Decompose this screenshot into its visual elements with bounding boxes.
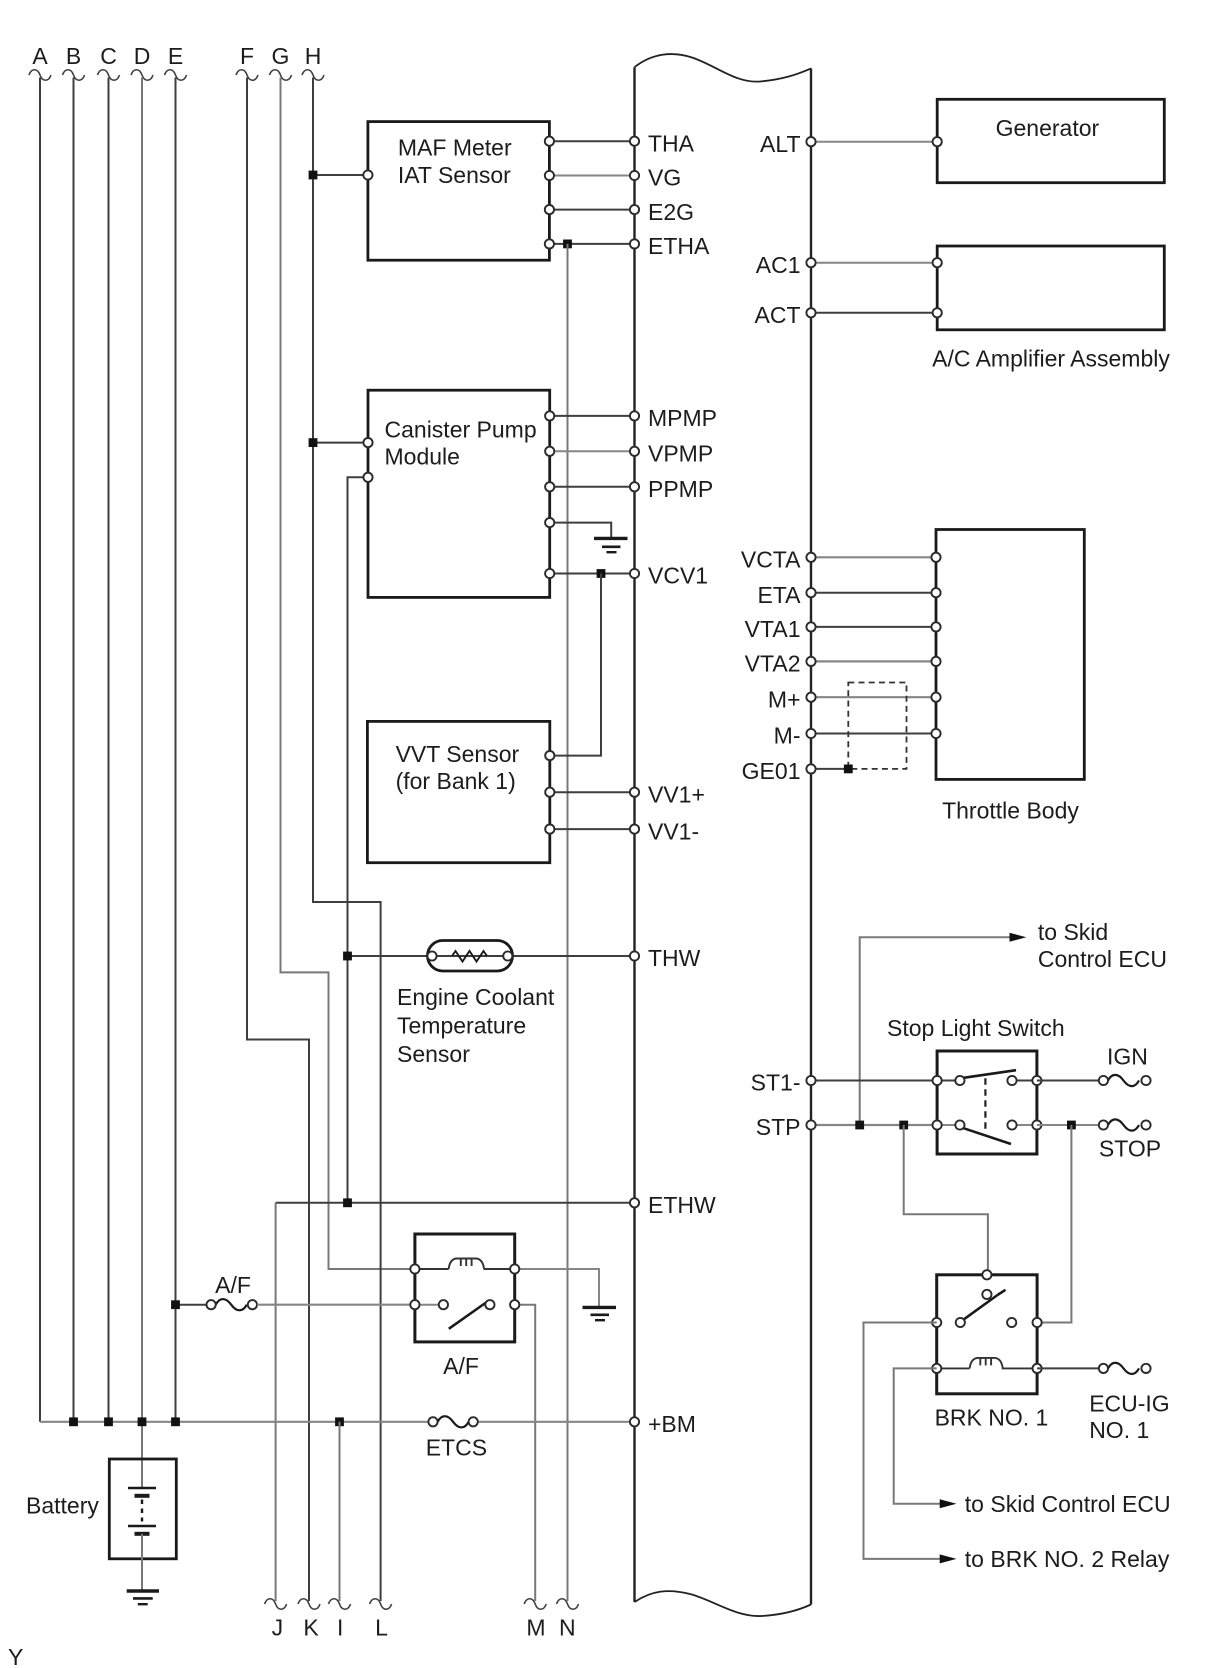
wire VV1+	[550, 791, 635, 793]
junction H-canister	[309, 438, 318, 447]
node C	[98, 43, 120, 80]
svg-text:H: H	[305, 43, 322, 69]
wire BRK coil left to skid control ECU arrow	[894, 1368, 941, 1503]
Stop Light Switch box	[887, 1015, 1065, 1154]
pin generator	[933, 137, 942, 146]
switch blade BRK relay	[963, 1295, 998, 1320]
node J	[265, 1599, 287, 1641]
node E	[165, 43, 187, 80]
wire ETHA	[549, 243, 634, 245]
svg-text:I: I	[337, 1614, 343, 1640]
junction ETHA to N	[563, 240, 572, 249]
wire N vertical	[567, 244, 569, 1601]
svg-text:VPMP: VPMP	[648, 441, 713, 467]
svg-text:B: B	[66, 43, 81, 69]
svg-text:ETHW: ETHW	[648, 1192, 716, 1218]
svg-text:Temperature: Temperature	[397, 1012, 526, 1038]
ECU pins right edge	[806, 137, 815, 1130]
junction STP skid branch	[855, 1121, 864, 1130]
pins canister right	[545, 411, 554, 578]
svg-text:Y: Y	[8, 1644, 23, 1668]
shield dashed box around M+/M-	[848, 683, 906, 769]
wire H vertical with jog to L	[313, 78, 381, 1602]
wire ALT	[811, 141, 937, 143]
node B	[63, 43, 85, 80]
svg-text:Engine Coolant: Engine Coolant	[397, 984, 555, 1010]
pins canister left	[363, 438, 372, 482]
svg-text:G: G	[272, 43, 290, 69]
svg-text:STOP: STOP	[1099, 1136, 1161, 1162]
node D	[131, 43, 153, 80]
pins VVT right	[545, 751, 554, 834]
svg-text:THW: THW	[648, 945, 701, 971]
junction B +BM	[69, 1417, 78, 1426]
pins throttle body	[931, 553, 940, 738]
wire +BM main line	[40, 1421, 428, 1423]
wire B vertical	[73, 78, 75, 1422]
junction THW column	[343, 952, 352, 961]
svg-text:A/F: A/F	[443, 1353, 479, 1379]
battery	[26, 1459, 176, 1590]
svg-text:IGN: IGN	[1107, 1044, 1148, 1070]
svg-text:Sensor: Sensor	[397, 1041, 470, 1067]
svg-text:ALT: ALT	[760, 131, 800, 157]
wire M-	[811, 733, 936, 735]
junction ETHW column	[343, 1198, 352, 1207]
node L	[370, 1599, 392, 1641]
svg-text:STP: STP	[756, 1114, 801, 1140]
svg-text:Control ECU: Control ECU	[1038, 946, 1167, 972]
svg-text:to Skid Control ECU: to Skid Control ECU	[965, 1491, 1171, 1517]
switch blade STP row	[942, 1125, 1033, 1144]
wire M+	[811, 696, 936, 698]
svg-text:+BM: +BM	[648, 1411, 696, 1437]
fuse ECU-IG NO. 1	[1037, 1363, 1170, 1443]
node I	[329, 1599, 351, 1641]
switch A/F relay	[420, 1300, 495, 1329]
resistor engine coolant temperature sensor	[397, 941, 555, 1067]
svg-text:NO. 1: NO. 1	[1089, 1417, 1149, 1443]
svg-text:GE01: GE01	[742, 758, 801, 784]
wire VTA1	[811, 626, 936, 628]
ECM ECU main box with torn edges	[635, 54, 812, 1616]
Canister Pump Module U-CPM	[368, 390, 550, 597]
svg-text:ST1-: ST1-	[751, 1070, 801, 1096]
arrow to skid control (top)	[1010, 933, 1027, 942]
fuse A/F	[171, 1272, 415, 1310]
dashed mechanical link	[984, 1078, 986, 1131]
svg-text:A: A	[32, 43, 48, 69]
wire VG	[549, 175, 634, 177]
node F	[236, 43, 258, 80]
wire A/F relay to M	[515, 1305, 536, 1601]
ground canister	[594, 538, 628, 552]
svg-text:PPMP: PPMP	[648, 476, 713, 502]
svg-text:MAF Meter: MAF Meter	[398, 135, 512, 161]
svg-text:ACT: ACT	[755, 302, 801, 328]
svg-text:A/C Amplifier Assembly: A/C Amplifier Assembly	[932, 345, 1170, 371]
junction GE01 shield	[844, 765, 853, 774]
wire STP branch to Skid Control ECU arrow	[860, 937, 1011, 1125]
svg-text:Throttle Body: Throttle Body	[942, 798, 1079, 824]
junction STP BRK branch	[899, 1121, 908, 1130]
fuse IGN	[1037, 1044, 1151, 1087]
relay A/F	[415, 1234, 515, 1379]
svg-text:VVT Sensor: VVT Sensor	[396, 741, 520, 767]
svg-text:VTA1: VTA1	[745, 616, 801, 642]
wire J vertical	[275, 1203, 277, 1601]
fuse ETCS	[426, 1416, 487, 1461]
svg-text:VTA2: VTA2	[745, 651, 801, 677]
wire VCTA	[811, 556, 936, 558]
wire STP to BRK relay top	[904, 1125, 988, 1275]
label to Skid Control ECU (top)	[1038, 919, 1167, 972]
pins A/C amp	[933, 258, 942, 317]
node M	[524, 1599, 546, 1641]
svg-text:AC1: AC1	[756, 252, 801, 278]
pins BRK relay	[932, 1270, 1042, 1373]
wire I vertical	[339, 1422, 341, 1601]
wire A/F coil to ground	[515, 1269, 599, 1306]
svg-text:M-: M-	[774, 723, 801, 749]
wire BRK switch left to BRK NO.2 relay arrow	[864, 1323, 941, 1559]
fuse STOP	[1037, 1119, 1161, 1161]
svg-text:THA: THA	[648, 131, 695, 157]
svg-text:VV1-: VV1-	[648, 818, 699, 844]
wire THW line	[348, 955, 635, 957]
wire G vertical with jog to A/F relay coil	[281, 78, 415, 1270]
wire A vertical	[39, 78, 41, 1422]
coil BRK relay	[941, 1358, 1032, 1369]
pins stop light switch	[933, 1076, 1042, 1130]
wire H to MAF left pin	[313, 174, 368, 176]
svg-text:ETA: ETA	[757, 582, 801, 608]
junction STOP branch	[1067, 1121, 1076, 1130]
junction D +BM	[138, 1417, 147, 1426]
svg-text:VV1+: VV1+	[648, 781, 705, 807]
relay BRK NO. 1	[935, 1275, 1049, 1431]
svg-text:(for Bank 1): (for Bank 1)	[396, 768, 516, 794]
wire VCV1 down to VVT pin1	[550, 574, 601, 756]
wire PPMP	[550, 486, 635, 488]
svg-text:VCTA: VCTA	[741, 547, 801, 573]
wire ACT	[811, 312, 937, 314]
junction E +BM	[171, 1417, 180, 1426]
arrow to skid control ECU (bottom)	[940, 1499, 957, 1508]
svg-text:N: N	[559, 1614, 576, 1640]
node A	[29, 43, 51, 80]
svg-text:BRK NO. 1: BRK NO. 1	[935, 1405, 1049, 1431]
svg-text:IAT Sensor: IAT Sensor	[398, 162, 511, 188]
svg-text:D: D	[134, 43, 151, 69]
wire ETHW line	[276, 1202, 635, 1204]
wire STOP junction down to BRK switch right	[1037, 1125, 1071, 1323]
wire ETA	[811, 592, 936, 594]
A/C Amplifier Assembly box	[932, 246, 1170, 371]
Throttle Body box	[936, 530, 1084, 824]
svg-text:VCV1: VCV1	[648, 563, 708, 589]
wire canister pin4 to ground	[550, 523, 612, 537]
wire E vertical	[175, 78, 177, 1422]
node H	[302, 43, 324, 80]
junction I +BM	[335, 1417, 344, 1426]
wire canister pin2 down to THW and ETHW	[348, 477, 369, 1203]
junction H-MAF	[309, 171, 318, 180]
wire VCV1	[550, 573, 635, 575]
arrow to BRK NO. 2 relay	[940, 1554, 957, 1563]
svg-text:to Skid: to Skid	[1038, 919, 1108, 945]
wire C vertical	[108, 78, 110, 1422]
svg-text:Module: Module	[385, 444, 460, 470]
wire D vertical	[141, 78, 143, 1489]
svg-text:Generator: Generator	[996, 115, 1100, 141]
svg-text:M+: M+	[768, 686, 801, 712]
wire VTA2	[811, 660, 936, 662]
svg-text:F: F	[240, 43, 254, 69]
wire VV1-	[550, 828, 635, 830]
ground A/F relay	[583, 1307, 617, 1320]
wire F vertical with jog to K	[247, 78, 309, 1602]
wire STP	[811, 1124, 937, 1126]
node N	[557, 1599, 579, 1641]
coil A/F relay	[420, 1259, 511, 1270]
wire THA	[549, 140, 634, 142]
node G	[270, 43, 292, 80]
VVT Sensor (for Bank 1) U-VVT	[367, 721, 549, 862]
node K	[298, 1599, 320, 1641]
svg-text:C: C	[100, 43, 117, 69]
wire MPMP	[550, 415, 635, 417]
ECU pins left edge	[630, 137, 639, 1427]
pin MAF left	[363, 170, 372, 179]
wire GE01 stub	[811, 768, 848, 770]
svg-text:L: L	[375, 1614, 388, 1640]
junction C +BM	[104, 1417, 113, 1426]
pins MAF right	[545, 137, 554, 249]
svg-text:VG: VG	[648, 165, 681, 191]
junction VCV1	[597, 569, 606, 578]
svg-text:E2G: E2G	[648, 199, 694, 225]
svg-text:J: J	[272, 1614, 284, 1640]
wire AC1	[811, 262, 937, 264]
svg-text:E: E	[168, 43, 183, 69]
svg-text:Stop Light Switch: Stop Light Switch	[887, 1015, 1065, 1041]
svg-text:M: M	[526, 1614, 545, 1640]
svg-text:ETCS: ETCS	[426, 1435, 487, 1461]
svg-text:A/F: A/F	[215, 1272, 251, 1298]
svg-text:to BRK NO. 2 Relay: to BRK NO. 2 Relay	[965, 1546, 1170, 1572]
svg-text:Canister Pump: Canister Pump	[385, 417, 537, 443]
wire H to canister pin1	[313, 442, 368, 444]
svg-text:MPMP: MPMP	[648, 405, 717, 431]
ground battery	[127, 1591, 159, 1604]
pins A/F relay edges	[410, 1264, 519, 1309]
MAF Meter / IAT Sensor U-MAF	[368, 122, 550, 261]
Generator box	[937, 99, 1164, 182]
svg-text:ETHA: ETHA	[648, 233, 710, 259]
switch blade ST1- row	[420, 0, 1033, 1081]
wire E2G	[549, 209, 634, 211]
svg-text:K: K	[303, 1614, 319, 1640]
wire VPMP	[550, 450, 635, 452]
wire ST1-	[811, 1080, 937, 1082]
svg-text:ECU-IG: ECU-IG	[1089, 1390, 1170, 1416]
svg-text:Battery: Battery	[26, 1493, 99, 1519]
